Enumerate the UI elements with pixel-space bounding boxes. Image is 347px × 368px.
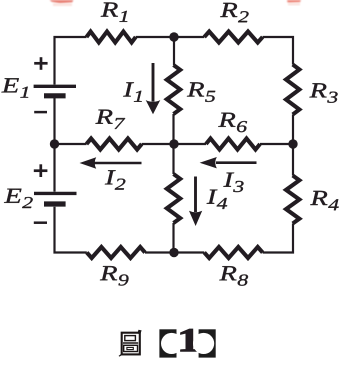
minus sign E1 <box>34 111 47 114</box>
label R7 <box>95 110 125 129</box>
minus sign E2 <box>34 221 47 224</box>
caption glyph 圖 bottom-left foot <box>119 353 123 356</box>
red scan mark top right <box>287 0 301 3</box>
red scan mark halo top left <box>53 3 72 6</box>
caption glyph 圖 top-right serif <box>137 330 141 334</box>
current arrow I1 <box>146 63 161 114</box>
label I2 <box>105 170 125 189</box>
wire right rail bottom <box>263 224 293 253</box>
resistor R9 <box>87 247 145 258</box>
current arrow I3 <box>200 157 257 168</box>
wire top rail right segment <box>263 37 293 65</box>
label R9 <box>100 266 129 285</box>
red scan mark halo top right <box>288 3 300 6</box>
label R4 <box>310 191 338 210</box>
label R5 <box>187 82 215 101</box>
battery E1 <box>34 85 76 88</box>
label I3 <box>223 173 243 192</box>
label R8 <box>219 266 248 285</box>
wire top rail mid segment <box>136 36 205 38</box>
current arrow I2 <box>80 157 142 168</box>
wire top rail left segment <box>55 37 87 85</box>
resistor R5 <box>167 65 180 114</box>
label I1 <box>123 82 142 101</box>
label R2 <box>220 3 248 22</box>
wire middle rail left segment <box>55 143 87 145</box>
caption glyph 圖 outer frame <box>122 333 140 355</box>
label R6 <box>218 113 247 132</box>
wire middle branch lower <box>172 144 174 174</box>
node middle left <box>50 139 59 148</box>
plus sign E2 <box>34 164 48 177</box>
resistor R8 <box>204 247 262 258</box>
caption bracket right <box>193 329 216 357</box>
wire middle rail mid segment <box>142 143 206 145</box>
label I4 <box>207 190 227 209</box>
resistor R3 <box>286 65 299 115</box>
node bottom middle <box>169 248 178 257</box>
resistor R6 <box>206 139 260 150</box>
label R3 <box>309 83 337 102</box>
resistor R7 <box>87 139 142 150</box>
resistor unlabeled middle lower <box>167 174 180 223</box>
wire middle branch to bottom <box>172 223 174 253</box>
label R1 <box>101 3 128 22</box>
caption digit 1 <box>181 329 199 351</box>
current arrow I4 <box>189 177 202 227</box>
node middle center <box>169 139 178 148</box>
wire bottom rail left segment <box>55 207 87 253</box>
wire middle rail right segment <box>260 143 293 145</box>
label E1 <box>1 78 28 97</box>
node middle right <box>288 139 297 148</box>
resistor R1 <box>87 32 136 43</box>
wire bottom rail mid segment <box>145 251 204 253</box>
resistor R2 <box>204 32 262 43</box>
label E2 <box>4 189 33 208</box>
resistor R4 <box>286 176 299 224</box>
red scan mark top left <box>50 0 74 4</box>
battery E2 <box>34 192 77 195</box>
wire left rail between batteries <box>53 98 55 192</box>
wire middle branch upper <box>173 37 175 65</box>
plus sign E1 <box>34 57 47 70</box>
caption bracket left <box>159 329 182 357</box>
wire right rail mid <box>292 115 294 176</box>
node top middle <box>169 32 178 41</box>
wire middle branch below R5 <box>172 114 174 144</box>
